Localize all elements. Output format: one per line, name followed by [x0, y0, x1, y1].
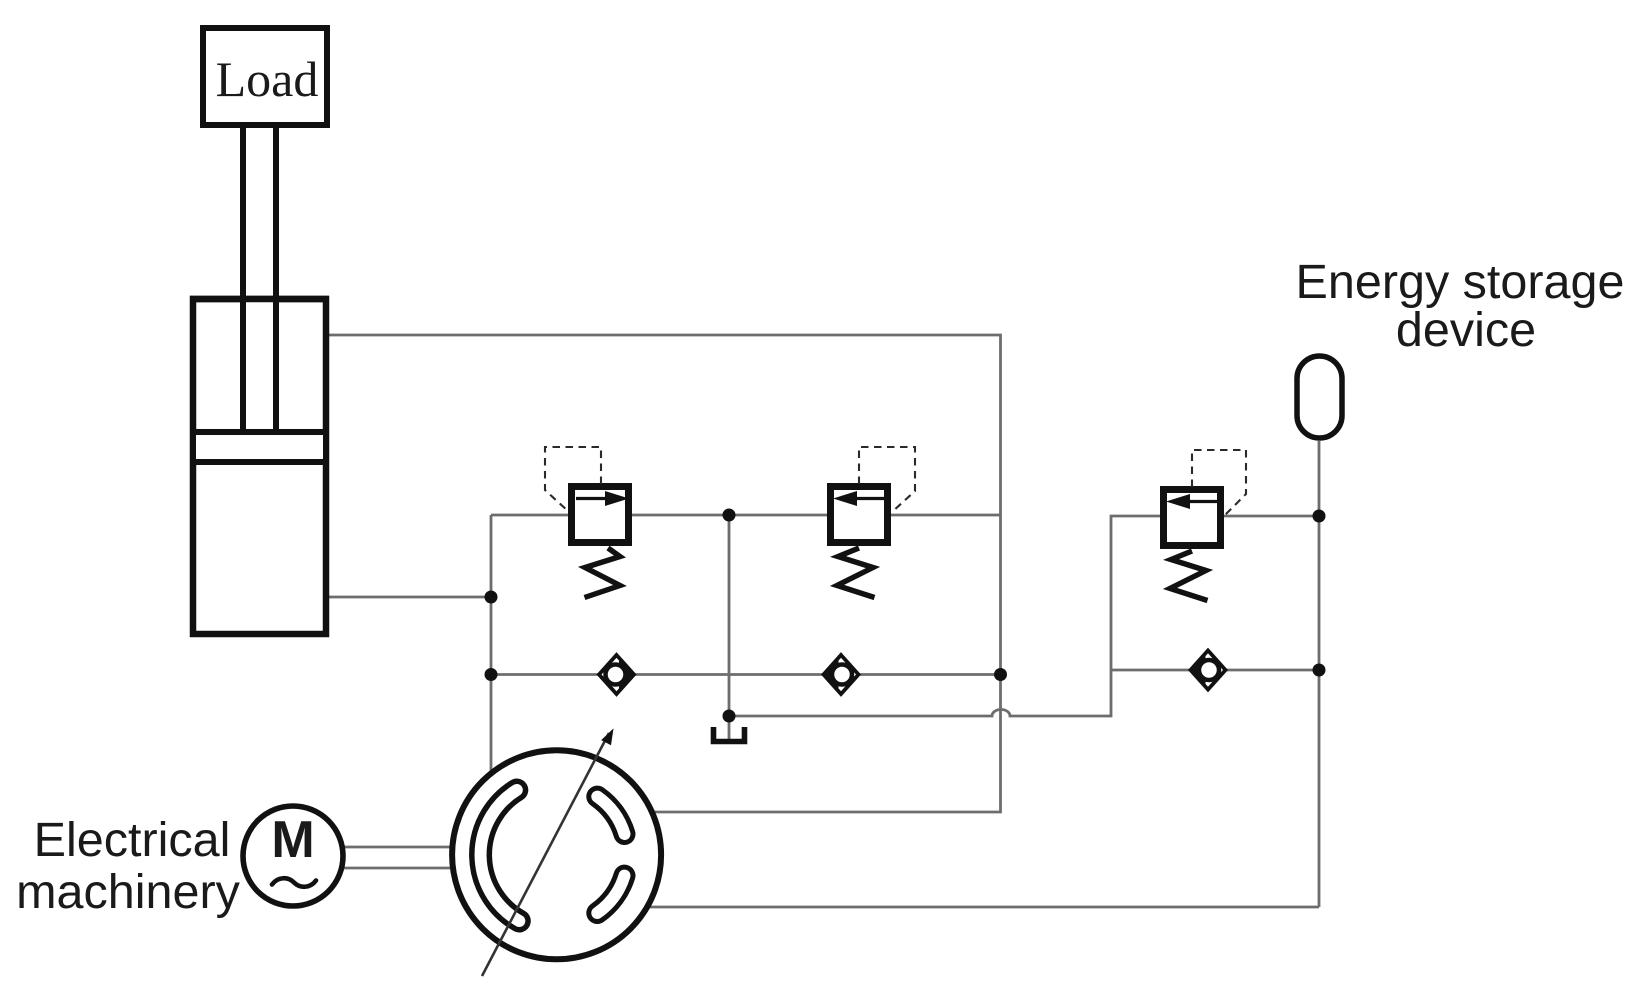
relief valve V3 box	[1164, 490, 1221, 546]
pump kidney slot top-right	[597, 797, 624, 834]
tank symbol	[714, 727, 745, 742]
wire: valve V3 output to accumulator bus	[1221, 515, 1319, 518]
relief valve V2 pilot dashed line	[859, 447, 915, 512]
relief valve V3 pilot dashed line	[1192, 450, 1246, 515]
relief valve V3 spring	[1170, 551, 1208, 601]
junction node E (check row / right bus)	[994, 668, 1007, 681]
pump/motor unit P1 circle	[452, 750, 661, 959]
cylinder C1	[190, 299, 329, 634]
check valve CV2	[822, 655, 859, 694]
junction node C (valve row / middle vertical)	[723, 509, 736, 522]
junction node G (check row CV3 / accumulator bus)	[1313, 664, 1326, 677]
svg-text:Load: Load	[216, 51, 319, 107]
wire: pump lower port to accumulator bus	[620, 906, 1319, 909]
label: Energy storage device	[1296, 255, 1625, 357]
relief valve V1 spring	[585, 548, 621, 598]
pump kidney slot bottom-right	[597, 876, 624, 913]
wire: drive shaft double line between motor and pump	[340, 847, 470, 868]
svg-text:Electrical: Electrical	[34, 813, 231, 867]
junction node A (cylinder piston line)	[485, 591, 498, 604]
wire: check valve row CV3	[1111, 669, 1319, 672]
svg-text:M: M	[271, 811, 314, 869]
relief valve V1 box	[572, 487, 630, 543]
relief valve V2 spring	[837, 548, 875, 598]
pump kidney slot large C	[481, 790, 520, 921]
pump variable displacement arrow	[482, 728, 614, 976]
junction node B (left bus / check row)	[485, 668, 498, 681]
wire: cylinder rod-side port to right vertical bus and pump upper port	[325, 335, 1001, 812]
wire: middle vertical to tank	[728, 515, 731, 739]
svg-text:Energy storage: Energy storage	[1296, 255, 1625, 309]
check valve CV3	[1189, 651, 1226, 690]
electric motor M circle	[243, 806, 343, 906]
wire: relief valve row (valve V1 and V2 line)	[491, 514, 1001, 517]
wire: tank row with crossover hump to valve V3 branch	[729, 516, 1163, 716]
check valve CV1	[599, 655, 636, 694]
wire: left vertical bus down to pump top port	[490, 515, 493, 800]
piston rod	[243, 125, 276, 432]
load box	[203, 28, 327, 125]
label: Electrical machinery	[16, 813, 240, 919]
svg-text:machinery: machinery	[16, 865, 240, 919]
accumulator (energy storage device)	[1297, 356, 1342, 438]
junction node D (tank branch)	[723, 710, 736, 723]
wire: cylinder piston-side port to left bus	[325, 596, 491, 599]
relief valve V2 box	[831, 487, 888, 543]
svg-text:device: device	[1396, 303, 1536, 357]
wire: accumulator vertical bus	[1318, 441, 1321, 907]
relief valve V1 pilot dashed line	[545, 447, 601, 512]
wire: check valve row CV1-CV2	[491, 673, 1001, 676]
junction node F (valve V3 row / accumulator bus)	[1313, 510, 1326, 523]
